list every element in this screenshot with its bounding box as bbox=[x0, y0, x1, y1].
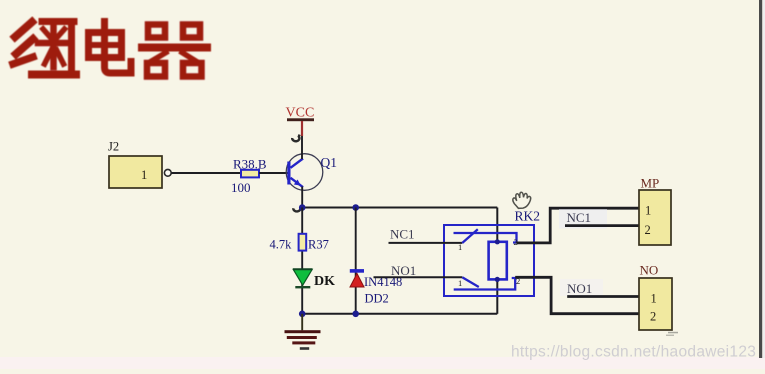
net label NC1 right bbox=[567, 210, 592, 225]
connector NO bbox=[639, 263, 672, 331]
svg-text:100: 100 bbox=[231, 180, 251, 195]
NO1 stub highlight bbox=[560, 279, 603, 296]
svg-text:1: 1 bbox=[645, 204, 651, 218]
继 left radical bbox=[15, 22, 32, 37]
wire NO1 into relay bbox=[374, 276, 463, 278]
wire Q1 emitter to node A bbox=[301, 187, 303, 208]
wire NC1 stub to MP pin2 bbox=[565, 224, 639, 227]
svg-text:https://blog.csdn.net/haodawei: https://blog.csdn.net/haodawei123 bbox=[511, 344, 756, 361]
svg-text:J2: J2 bbox=[108, 140, 119, 154]
wire relay common top to MP pin1 bbox=[517, 208, 640, 243]
wire R38.B to Q1 base bbox=[259, 172, 288, 174]
relay coil bbox=[489, 239, 507, 282]
hand cursor bbox=[513, 192, 531, 208]
node B junction bbox=[352, 204, 359, 211]
svg-text:2: 2 bbox=[650, 310, 656, 324]
svg-text:MP: MP bbox=[641, 176, 660, 191]
svg-text:NO1: NO1 bbox=[567, 281, 592, 296]
net label NC1 left bbox=[390, 226, 415, 241]
resistor R38.B bbox=[231, 156, 267, 195]
svg-text:Q1: Q1 bbox=[321, 155, 338, 170]
net label NO1 right bbox=[567, 281, 592, 296]
connector MP bbox=[639, 176, 671, 246]
ground bbox=[285, 330, 321, 350]
resistor R37 bbox=[270, 234, 329, 252]
svg-text:1: 1 bbox=[458, 278, 462, 288]
wire NO1 stub to NO pin1 bbox=[567, 295, 638, 298]
svg-text:1: 1 bbox=[141, 168, 147, 182]
wire node A horizontal bbox=[302, 207, 497, 209]
wire node A down through R37 LED bbox=[301, 208, 303, 314]
NC1 stub highlight bbox=[559, 209, 607, 229]
relay RK2 box bbox=[444, 209, 540, 297]
transistor Q1 bbox=[286, 154, 337, 191]
svg-text:VCC: VCC bbox=[286, 106, 315, 121]
电 bbox=[89, 33, 122, 58]
connector J2 bbox=[108, 140, 162, 189]
svg-text:R37: R37 bbox=[308, 238, 329, 252]
LED DK bbox=[293, 269, 335, 289]
title 继电器 bbox=[13, 22, 207, 77]
artifact dashes below NO bbox=[666, 332, 678, 336]
wire node B down through diode bbox=[355, 208, 357, 314]
relay contact top blade bbox=[458, 229, 478, 252]
wire relay common bottom to NO pin2 bbox=[515, 277, 639, 313]
wire relay coil bottom down bbox=[496, 279, 498, 313]
ground lead bbox=[301, 314, 303, 331]
器 bbox=[148, 25, 165, 38]
wire J2 to R38.B bbox=[171, 172, 241, 174]
relay contact bottom blade bbox=[458, 277, 479, 288]
svg-text:1: 1 bbox=[651, 292, 657, 306]
bottom wire node C to relay bbox=[302, 313, 497, 315]
svg-text:DK: DK bbox=[314, 274, 335, 289]
relay contact top throw bbox=[454, 233, 518, 247]
watermark bbox=[511, 344, 756, 361]
svg-text:NC1: NC1 bbox=[390, 226, 415, 241]
no-ERC mark near collector bbox=[292, 135, 299, 142]
no-ERC mark near node A bbox=[293, 207, 300, 212]
wire VCC to Q1 collector bbox=[301, 136, 303, 159]
svg-text:NO: NO bbox=[640, 263, 659, 278]
svg-text:RK2: RK2 bbox=[515, 209, 541, 224]
node D junction bbox=[352, 311, 359, 318]
relay contact bottom throw bbox=[454, 276, 521, 290]
svg-text:4.7k: 4.7k bbox=[270, 238, 293, 252]
svg-text:2: 2 bbox=[645, 223, 651, 237]
svg-text:NO1: NO1 bbox=[391, 263, 416, 278]
node A junction bbox=[299, 204, 306, 211]
power VCC bbox=[286, 106, 315, 137]
net label NO1 left bbox=[391, 263, 416, 278]
J2 pin circle bbox=[164, 169, 171, 176]
svg-text:DD2: DD2 bbox=[365, 292, 389, 306]
svg-text:NC1: NC1 bbox=[567, 210, 592, 225]
继 right part bbox=[42, 18, 74, 25]
svg-text:1: 1 bbox=[458, 242, 462, 252]
wire NC1 into relay bbox=[389, 242, 463, 244]
node C junction bbox=[299, 311, 306, 318]
wire down to relay coil bbox=[496, 208, 498, 242]
svg-text:R38.B: R38.B bbox=[233, 156, 267, 171]
diode DD2 IN4148 bbox=[350, 269, 402, 305]
